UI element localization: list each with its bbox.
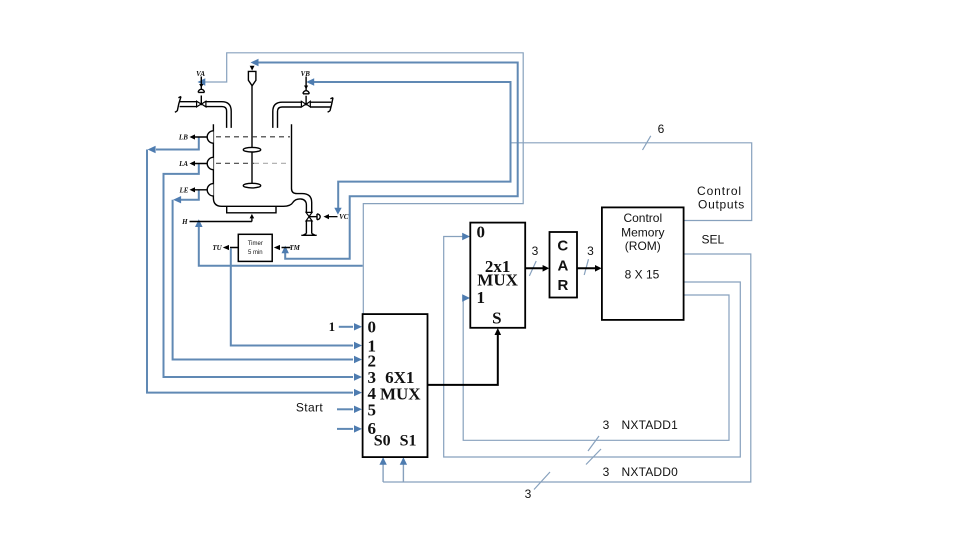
svg-text:1: 1 (476, 288, 485, 307)
svg-text:NXTADD0: NXTADD0 (622, 465, 679, 479)
svg-text:VA: VA (196, 70, 205, 78)
svg-text:S1: S1 (400, 433, 417, 450)
svg-text:0: 0 (368, 318, 377, 337)
svg-text:5: 5 (368, 401, 377, 420)
svg-text:NXTADD1: NXTADD1 (622, 418, 679, 432)
svg-text:Control: Control (697, 184, 742, 198)
svg-text:TM: TM (289, 244, 300, 252)
svg-text:LB: LB (178, 134, 188, 142)
svg-text:MUX: MUX (380, 385, 421, 404)
svg-text:LE: LE (179, 186, 189, 194)
svg-text:Control: Control (623, 211, 662, 225)
svg-text:Memory: Memory (621, 226, 664, 240)
svg-text:TU: TU (212, 244, 222, 252)
svg-text:H: H (181, 218, 188, 226)
svg-text:1: 1 (329, 319, 336, 334)
svg-text:3: 3 (603, 465, 610, 479)
svg-text:Timer: Timer (248, 241, 263, 247)
svg-text:3: 3 (603, 418, 610, 432)
svg-text:0: 0 (476, 223, 485, 242)
svg-text:Start: Start (296, 401, 324, 415)
svg-text:3: 3 (525, 487, 532, 501)
svg-text:Outputs: Outputs (698, 198, 745, 212)
svg-text:3: 3 (532, 244, 539, 258)
svg-text:VB: VB (301, 70, 311, 78)
svg-text:3: 3 (587, 244, 594, 258)
svg-text:8 X 15: 8 X 15 (625, 268, 660, 282)
svg-text:MUX: MUX (477, 271, 518, 290)
svg-text:VC: VC (339, 213, 349, 221)
svg-text:S: S (492, 309, 501, 328)
svg-text:5 min: 5 min (248, 250, 263, 256)
svg-text:R: R (557, 277, 568, 294)
svg-text:C: C (557, 238, 568, 255)
svg-text:LA: LA (178, 160, 188, 168)
svg-text:A: A (557, 257, 568, 274)
svg-text:6: 6 (658, 122, 665, 136)
svg-text:S0: S0 (374, 433, 391, 450)
svg-text:(ROM): (ROM) (625, 239, 661, 253)
svg-text:SEL: SEL (701, 233, 724, 247)
